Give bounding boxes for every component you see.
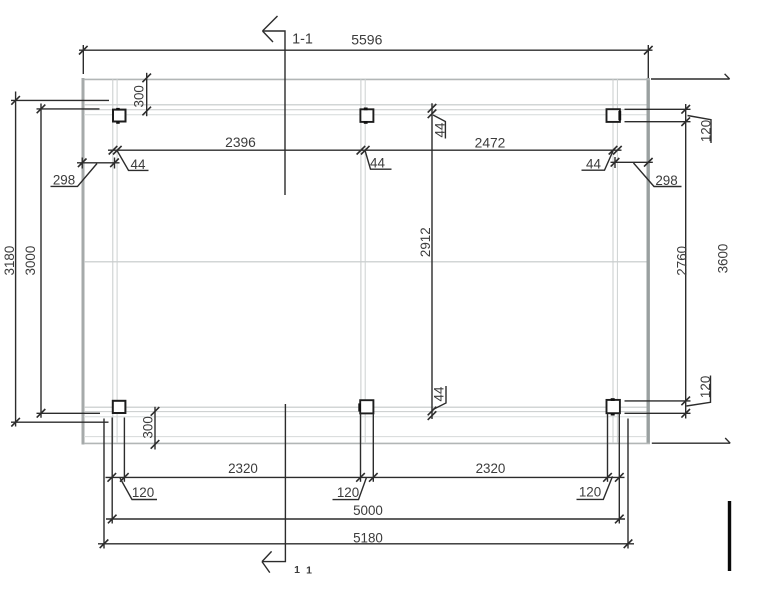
top beam lower line [84,114,647,116]
svg-text:5596: 5596 [351,32,382,48]
svg-text:44: 44 [131,157,146,172]
top beam upper line [84,104,647,106]
svg-text:1-1: 1-1 [292,32,313,48]
post bottom-middle [358,400,373,413]
ticks 3180 [11,96,20,105]
svg-text:3180: 3180 [2,246,17,276]
post top-left [113,108,126,124]
svg-text:2760: 2760 [674,246,689,276]
dim 2320 line [106,476,625,478]
flag 120 top-right rotated [688,116,712,144]
svg-text:2320: 2320 [228,461,258,476]
deck top edge [84,78,650,80]
post bottom-left [113,401,126,413]
dim 298 right leader [634,163,682,187]
mid beam line [84,261,647,263]
ticks 2320 line [108,473,117,482]
dim 3000 line [40,104,42,418]
flag 44 top-mid rotated [433,115,445,139]
dim 2760 line [685,104,687,419]
dim 3180 line [15,92,17,427]
dim 298 left leader [51,164,98,187]
bottom ext verticals [103,419,105,549]
deck left edge [82,78,85,445]
svg-text:2396: 2396 [225,135,256,150]
post bottom-right [607,398,620,415]
flag 120 bottom-right [577,476,613,499]
rafter pair right [612,79,614,443]
dim 5180 line [98,543,634,545]
ticks 5180 [100,540,109,549]
post top-middle [360,108,373,124]
leader top-right [651,78,730,80]
section mark bottom [262,404,285,562]
dim 298 left ext ticks verticals [81,158,83,169]
svg-text:3600: 3600 [716,244,731,274]
flag 44 right [582,151,614,170]
dim 2912 line [431,103,433,419]
ticks 2760 and 120s right [681,105,690,114]
dim 298 left line [77,162,120,164]
flag 120 bottom-left [120,478,157,500]
dim 2396-2472 line [108,149,622,151]
svg-text:2320: 2320 [476,461,506,476]
svg-text:44: 44 [370,156,385,171]
top-right 120 ext lower [625,121,691,123]
flag 120 bottom-right rotated [687,376,711,407]
dim 3180 ext top [11,99,109,101]
ticks 5000 [108,515,117,524]
section mark top [263,31,286,195]
top-right 120 ext upper [625,108,691,110]
ticks 298 left [78,159,87,168]
scale bar black [728,501,731,571]
svg-text:120: 120 [337,485,359,500]
dim 298 right line [611,161,653,163]
svg-text:2472: 2472 [475,135,506,150]
svg-text:298: 298 [53,173,75,188]
dim 3000 ext bottom [37,412,101,414]
ticks 2396 line [109,146,118,155]
svg-text:120: 120 [579,485,601,500]
svg-text:1: 1 [294,564,300,576]
svg-text:120: 120 [132,485,154,500]
bottom beam mid line [84,411,647,413]
ticks 5596 [79,46,88,55]
dim 3180 ext bottom [11,421,109,423]
flag 120 bottom-middle [333,477,367,499]
dim 5596 ext left [82,45,84,74]
deck bottom edge [84,442,650,444]
leader bottom-right [652,442,730,444]
bottom-right 120 ext upper [625,400,691,402]
deck right edge [647,78,650,444]
deck bottom inner line [84,436,646,438]
svg-text:3000: 3000 [23,246,38,276]
rafter pair middle [360,79,362,443]
svg-text:120: 120 [698,120,713,142]
dim 3000 ext top [37,108,100,110]
dim 300 top-left line [146,73,148,116]
ticks 300 bottom-left [151,407,160,416]
ticks 3000 [37,105,46,114]
svg-text:5180: 5180 [353,531,383,546]
ticks 2912 [428,104,437,113]
bottom beam upper line [84,406,647,408]
ticks 300 top-left [142,74,151,83]
svg-text:298: 298 [655,173,677,188]
flag 44 left [117,151,148,170]
flag 44 bottom-mid rotated [433,386,446,410]
flag 44 middle [365,151,391,169]
rafter pair left [112,79,114,443]
svg-text:44: 44 [586,156,601,171]
svg-text:44: 44 [433,122,448,137]
svg-text:120: 120 [698,376,713,398]
svg-text:300: 300 [132,85,147,107]
dim 5596 line [79,49,653,51]
svg-text:5000: 5000 [353,503,383,518]
post top-right [607,109,622,122]
bottom-right 120 ext lower [625,412,691,414]
svg-text:1: 1 [306,565,312,577]
ticks 298 right [611,158,620,167]
top beam mid line [84,109,647,111]
bottom beam lower line [84,416,647,418]
dim 5000 line [106,518,625,520]
svg-text:2912: 2912 [418,227,433,257]
svg-text:44: 44 [432,386,447,401]
svg-text:300: 300 [141,416,156,438]
dim 5596 ext right [647,45,649,78]
dim 300 bottom-left line [154,407,156,450]
dim 298 right ext vertical [614,157,616,168]
